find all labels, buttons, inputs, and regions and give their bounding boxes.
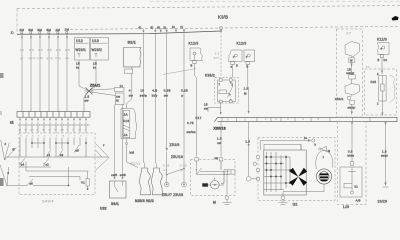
svg-text:s6: s6 [30,182,34,186]
svg-text:K3/B: K3/B [218,15,228,20]
svg-text:8M: 8M [47,28,52,32]
svg-text:w: w [25,129,27,132]
svg-text:0.5: 0.5 [56,48,61,52]
svg-text:br: br [76,66,79,70]
G2 motor housing [316,151,333,170]
M brush plate [224,170,235,174]
wire pin4 down [48,34,50,112]
svg-text:A/9: A/9 [356,199,361,203]
svg-text:Z5U/9: Z5U/9 [170,143,180,147]
splice bM under fuse [125,142,138,167]
svg-text:d: d [80,135,82,138]
svg-text:x1: x1 [10,121,14,125]
svg-text:G2: G2 [293,203,298,207]
svg-text:r: r [86,135,87,138]
svg-text:6: 6 [227,118,229,122]
svg-text:1M: 1M [65,28,70,32]
svg-text:L29: L29 [343,205,349,209]
wire splice to connector S box [91,92,116,96]
connector Z5U/7 [164,182,169,187]
G2 matrix wires [264,144,301,192]
svg-text:8M: 8M [38,28,43,32]
svg-text:K7: K7 [347,32,352,36]
fuse F25 [371,58,387,117]
svg-text:sw: sw [217,141,222,145]
svg-text:b+: b+ [304,136,308,140]
svg-text:S49/4: S49/4 [42,199,54,204]
plug symbol on dashed rail [219,26,222,32]
wire pin3 down [39,34,41,112]
wire splice to plug 11 [91,89,115,90]
rail tick marks [222,117,370,121]
relay coil [219,90,227,94]
svg-text:s2: s2 [46,163,50,167]
pin 2M on bus [21,32,23,34]
S2/1 pin box [125,67,133,73]
connector K12/3 left [189,42,203,68]
svg-text:W29/1: W29/1 [76,48,87,52]
svg-text:Z5A/1: Z5A/1 [90,84,100,88]
svg-text:1.5: 1.5 [245,140,250,144]
svg-text:sw/gr: sw/gr [348,106,356,110]
washer pump N2/2 [135,168,163,203]
wire labels above rail right [0,0,1,1]
wiper motor assembly M dashed box [191,160,236,196]
splice Z5U/9 connector [166,143,184,184]
harness continuation chevrons left [0,140,16,186]
svg-text:3: 3 [302,117,304,121]
switch S2/1 [124,41,142,67]
svg-text:ws: ws [163,168,167,172]
switch s2 [26,158,89,171]
svg-text:F1: F1 [366,65,370,69]
svg-text:K38/2: K38/2 [205,74,215,78]
svg-text:b: b [315,143,317,147]
svg-text:sw: sw [65,56,70,60]
wire label 0.5 gnrt [214,52,220,60]
wire rail to washer assembly [245,122,250,177]
svg-text:1: 1 [377,102,379,106]
svg-text:y: y [246,56,248,59]
svg-text:sw/p: sw/p [140,94,147,98]
svg-text:1: 1 [265,117,267,121]
wire column Z5U/9 [164,33,171,148]
K7 lower connector shape [335,79,360,115]
svg-text:sw: sw [61,129,65,132]
diode unit L29 dashed box [338,122,367,205]
relay box K7 dashed [337,29,363,117]
svg-text:R27/1: R27/1 [131,162,141,166]
svg-text:0.35: 0.35 [181,89,188,93]
diagonal wire to K12/3 zone [163,69,196,75]
svg-text:Z5U/10: Z5U/10 [171,155,183,159]
page border dashed line top [150,0,400,2]
svg-text:0.35: 0.35 [164,89,171,93]
svg-text:B: B [378,58,380,62]
switch s6 [7,167,80,186]
internal crossbar wires [32,142,68,144]
relay contact arm [228,86,234,98]
relay K38/2 [205,74,239,104]
svg-text:s4: s4 [21,163,25,167]
G2 matrix junction dots [266,156,292,184]
svg-text:JA: JA [124,133,128,137]
connector strip x1 [10,112,90,125]
pin 8M c on bus [48,32,50,34]
switch junction dots [31,142,87,144]
svg-text:s1: s1 [47,153,51,157]
wire size labels lower [163,164,187,172]
bus pins with labels, wires to connector x1 [20,28,70,112]
wire splice to connector x1 [84,93,90,112]
svg-text:y: y [233,56,235,59]
svg-text:bl/y: bl/y [152,94,158,98]
svg-text:M: M [116,99,119,103]
svg-text:p/br: p/br [38,56,44,60]
svg-text:v: v [103,144,105,147]
svg-text:w: w [49,129,51,132]
harness arrows on dashed rail [139,25,186,33]
M plug pins [195,157,223,161]
M motor armature [208,161,224,189]
svg-text:1.5: 1.5 [244,87,249,91]
svg-text:M: M [244,92,247,96]
svg-text:gnrt: gnrt [214,56,220,60]
svg-text:8M: 8M [29,28,34,32]
svg-text:K12/3: K12/3 [237,42,247,46]
switch s3 [58,150,64,158]
svg-text:K12/3: K12/3 [377,38,387,42]
wire pair to switch S9/1 [111,105,126,180]
svg-text:F18: F18 [123,119,129,123]
wire F25 below rail to terminal 23/29 [378,122,389,204]
svg-text:B: B [191,64,193,68]
svg-text:0.5: 0.5 [38,48,43,52]
svg-text:W29/2: W29/2 [92,48,103,52]
svg-text:0.5: 0.5 [29,48,34,52]
svg-text:e: e [381,48,383,51]
black mark top right margin [392,16,399,21]
fuse box F1 dashed [365,65,397,115]
control unit U13 [91,38,109,61]
dashed left edge of top-left connector zone [16,9,18,35]
svg-text:X53/1: X53/1 [335,97,344,101]
svg-text:k1: k1 [355,185,359,189]
svg-text:sw/ws: sw/ws [187,130,197,134]
switch s5 [74,145,79,153]
svg-text:v: v [38,135,40,138]
svg-text:6: 6 [8,171,10,175]
svg-text:8): 8) [157,25,160,29]
plug 11 [115,84,125,91]
wire U12 to splice [76,60,89,91]
svg-text:N25/3 N2/2: N25/3 N2/2 [135,199,154,203]
svg-text:F25: F25 [371,80,377,84]
svg-text:D: D [236,64,238,68]
svg-text:sw: sw [164,94,169,98]
svg-text:sw: sw [215,157,219,160]
svg-text:sw: sw [129,94,134,98]
svg-text:8): 8) [172,25,175,29]
terminal rail X35/13 [214,117,398,130]
washer unit G2 dashed box [258,138,335,201]
svg-text:2A: 2A [124,113,128,117]
wire gauge/colour labels row 1 [20,48,70,60]
svg-text:X35/13: X35/13 [214,127,226,131]
svg-text:br: br [93,66,96,70]
svg-text:bl/y: bl/y [56,56,62,60]
svg-text:4: 4 [129,89,131,93]
strip wire size labels [18,124,90,132]
svg-text:0.5: 0.5 [65,48,70,52]
wire column Z5U/8 feed [181,33,188,184]
G2 horn symbol [319,146,331,153]
svg-text:10: 10 [20,48,24,52]
svg-text:2M: 2M [56,28,61,32]
svg-text:S9/1: S9/1 [111,202,119,206]
svg-text:rt: rt [85,129,87,132]
wire washer pump 1 feed [140,34,147,168]
svg-text:swB: swB [111,173,117,177]
switch pin letters row [20,135,87,138]
svg-text:D1: D1 [384,58,388,62]
resistor V1 [81,171,89,190]
dashed wire to relay K38/2 [220,32,222,78]
harness dashed line mid [70,26,400,29]
left margin mark 1 [0,73,4,78]
switch S9/1 [100,181,126,211]
svg-text:blws: blws [348,154,355,158]
svg-text:F17: F17 [196,116,202,120]
svg-text:W: W [350,59,353,63]
svg-text:10: 10 [140,89,144,93]
svg-text:0.75: 0.75 [187,121,194,125]
pin 8M on bus [30,32,32,34]
svg-text:0.35: 0.35 [84,124,90,127]
svg-text:gr: gr [13,147,16,151]
svg-text:bM: bM [130,151,135,155]
wire pin1 down [21,34,23,111]
svg-text:7: 7 [219,84,221,87]
svg-text:4.5: 4.5 [152,89,157,93]
switch s1 [46,150,51,158]
svg-text:f: f [68,135,69,138]
wire pin2 down [30,34,32,111]
svg-text:M: M [213,201,216,205]
wire rail to wiper motor plug [217,122,222,157]
svg-text:1): 1) [11,31,14,35]
wire pin6 down [66,34,68,112]
fuse holder outline right [390,76,395,103]
L29 inner box [340,162,362,209]
connector X12/3 top right [377,38,389,63]
svg-text:p: p [181,94,183,98]
main contact rail [7,156,109,158]
svg-text:sw: sw [85,99,90,103]
control unit U12 [75,38,90,61]
svg-text:U32: U32 [100,207,107,211]
main bus line (terminal 15 rail) [17,31,222,34]
rail pin numbers [227,117,320,122]
connector K12/3 right pair [229,42,255,69]
svg-text:3: 3 [275,117,277,121]
svg-text:s: s [56,135,58,138]
svg-text:V1: V1 [81,181,85,185]
wire K12/3 to K38/2 [232,65,234,78]
svg-text:gr/p: gr/p [47,56,53,60]
svg-text:gr: gr [21,56,24,60]
U12 pin symbol [78,54,81,58]
svg-text:2M: 2M [20,28,25,32]
wire pin5 down [57,34,59,112]
K7 upper connector shape [345,42,360,80]
harness continuation chevrons right [96,144,110,171]
svg-text:sw/gr: sw/gr [346,71,354,75]
svg-text:K12/3: K12/3 [189,42,199,46]
svg-text:m: m [62,135,64,138]
connector Z5U/8 [162,182,186,197]
left margin mark 2 [0,111,2,115]
M park switch contact [196,161,230,175]
svg-text:4: 4 [5,142,7,146]
M ground lead [213,174,232,204]
strip exit arrows [19,119,87,122]
G2 left edge plug pins [253,156,259,180]
svg-text:0.5: 0.5 [47,48,52,52]
svg-text:1: 1 [323,155,325,159]
svg-text:B: B [247,65,249,69]
svg-text:Z5U/7 Z5U/8: Z5U/7 Z5U/8 [162,193,183,197]
svg-text:a: a [231,66,233,69]
svg-text:2): 2) [163,25,166,29]
svg-text:c: c [44,135,46,138]
svg-text:sw/p: sw/p [29,56,36,60]
G2 pump impeller [289,168,307,186]
fuse F18 holder [121,109,137,143]
svg-text:i: i [50,135,51,138]
washer pump N25/3 [139,168,150,195]
G2 feed wires top [261,136,317,150]
svg-text:s3: s3 [60,153,64,157]
svg-text:23/29: 23/29 [378,200,388,204]
switch s4 [20,158,51,167]
left margin mark 3 [0,178,4,186]
strip to switch wires [20,122,86,133]
svg-text:t: t [74,135,75,138]
pin 2M b on bus [57,32,59,34]
svg-text:U12: U12 [76,39,83,43]
svg-text:swB: swB [120,173,126,177]
connector ring washer assembly [246,177,258,182]
svg-text:s5: s5 [76,149,80,153]
G2 ground lead [279,184,325,206]
wire K12/3 to rail X35/13 and washer unit [244,65,250,114]
G2 armature with stripes [316,169,331,184]
svg-text:2: 2 [232,84,234,87]
harness boundary dashed line K3/B zone top [17,6,400,9]
svg-text:8: 8 [318,117,320,121]
combination switch S49/4 dashed box [19,133,95,204]
wire K12/3 left to wiper motor [187,64,197,157]
solder splice Z5A/1 [85,84,101,95]
connector sleeve box [116,93,125,105]
svg-text:gn: gn [31,129,35,132]
svg-text:5: 5 [244,117,246,121]
switch internal wires vertical [20,138,86,158]
svg-text:swgr: swgr [381,154,388,158]
wire washer pump 2 feed [152,33,158,168]
svg-text:8): 8) [151,25,154,29]
wire K38/2 to rail [196,103,222,121]
svg-text:b: b [32,135,34,138]
svg-text:S2/1: S2/1 [128,41,137,45]
svg-text:U13: U13 [92,39,99,43]
wire K7 below rail to L29 [348,122,355,162]
svg-text:1.5: 1.5 [217,137,222,141]
U13 pin symbol [95,54,98,58]
wire S2/1 to fuse F18 [127,73,134,108]
svg-text:p: p [26,135,28,138]
svg-text:6): 6) [139,26,142,30]
wire U13 to splice [90,60,97,91]
pin 8M b on bus [39,32,41,34]
G2 switch matrix box [264,150,306,195]
svg-text:2): 2) [180,25,183,29]
jumper between Z5U columns [166,168,185,176]
M suppressor block [202,183,208,186]
svg-text:a: a [20,135,22,138]
svg-text:3: 3 [287,117,289,121]
pin 1M on bus [66,31,68,33]
